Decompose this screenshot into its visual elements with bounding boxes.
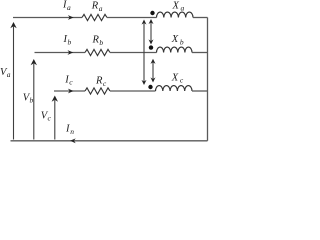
resistor Ra [82,14,107,20]
label Xc [171,72,184,84]
label Xb [171,34,184,46]
inductor Xc [156,86,193,91]
label Ic [64,74,73,86]
wire bottom neutral [11,140,208,142]
wire phase a middle segment [107,17,157,19]
current arrow Ia [68,15,74,20]
current arrow Ib [68,50,74,55]
polarity dot phase c [148,85,152,89]
wire phase b right segment [192,52,208,54]
wire phase c left segment [54,90,85,92]
label Vc [41,110,52,122]
wire right vertical bus [207,18,209,141]
label Ia [62,0,71,12]
voltage arrow Vb [31,59,37,140]
label Xa [172,0,185,12]
label Ib [63,34,72,46]
resistor Rc [85,88,110,94]
wire phase b left segment [35,52,86,54]
resistor Rb [85,49,110,55]
wire phase b middle segment [110,52,157,54]
label Rc [95,76,107,88]
inductor Xb [157,47,193,52]
voltage arrow Va [10,22,16,140]
label Rb [92,34,104,46]
inductor Xa [157,12,194,17]
polarity dot phase b [149,45,153,49]
mutual coupling arrow a-b [149,19,154,45]
label Vb [23,92,34,104]
mutual coupling arrow b-c [151,59,156,83]
voltage arrow Vc [52,96,58,140]
wire phase a left segment [13,17,82,19]
label In [65,123,74,136]
mutual coupling arrow a-c [142,20,147,86]
label Ra [91,1,103,13]
polarity dot phase a [150,11,154,15]
label Va [0,67,11,79]
current arrow Ic [68,89,74,94]
current arrow In [70,138,76,143]
wire phase c right segment [192,90,208,92]
wire phase c middle segment [110,90,156,92]
wire phase a right segment [193,17,208,19]
